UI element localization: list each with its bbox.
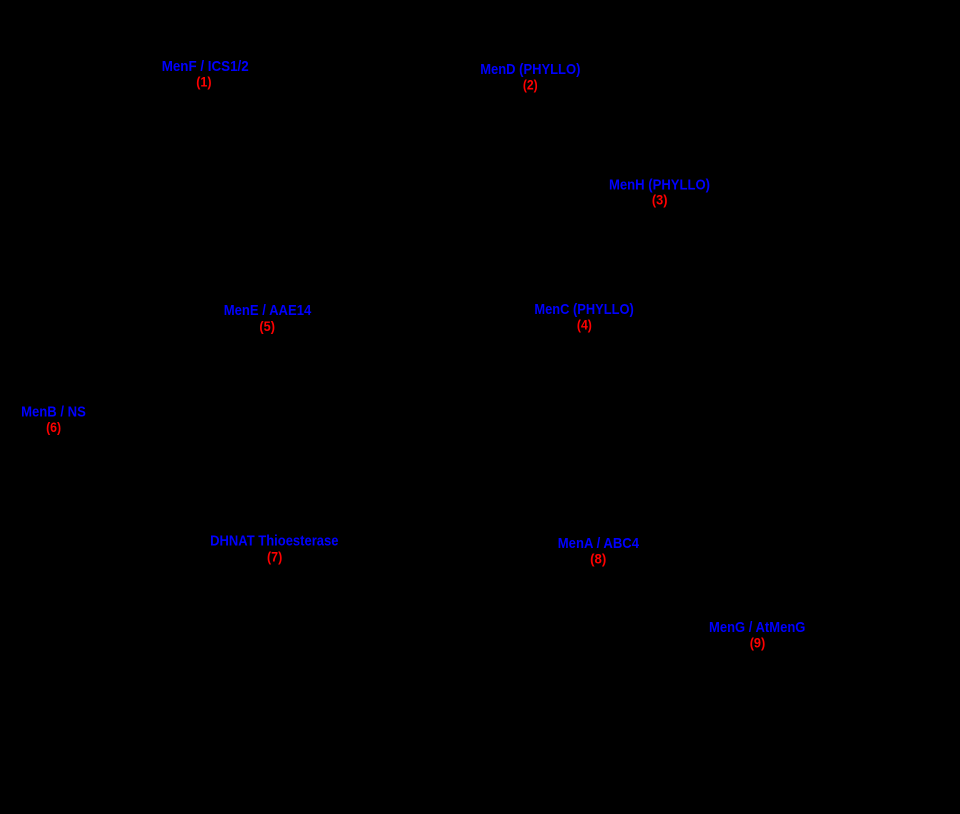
svg-text:(3): (3): [652, 192, 668, 208]
enzyme label MenE / AAE14 (step 5): [224, 302, 312, 334]
svg-text:(4): (4): [577, 317, 592, 333]
svg-text:MenF / ICS1/2: MenF / ICS1/2: [162, 58, 249, 75]
svg-text:MenD (PHYLLO): MenD (PHYLLO): [480, 61, 580, 78]
svg-text:(6): (6): [46, 419, 61, 435]
enzyme label MenF / ICS1/2 (step 1): [162, 58, 249, 90]
svg-text:(7): (7): [267, 548, 282, 564]
enzyme label MenB / NS (step 6): [21, 403, 86, 435]
svg-text:(1): (1): [196, 73, 211, 89]
svg-text:MenE / AAE14: MenE / AAE14: [224, 302, 312, 319]
svg-text:MenC (PHYLLO): MenC (PHYLLO): [534, 301, 633, 318]
svg-text:(9): (9): [750, 634, 766, 650]
svg-text:(5): (5): [259, 318, 275, 334]
enzyme label MenG / AtMenG (step 9): [709, 619, 805, 650]
enzyme label DHNAT Thioesterase (step 7): [210, 533, 338, 565]
svg-text:(8): (8): [590, 551, 606, 567]
enzyme label MenA / ABC4 (step 8): [558, 535, 640, 566]
svg-text:(2): (2): [523, 77, 538, 93]
enzyme label MenH (PHYLLO) (step 3): [609, 176, 710, 207]
svg-text:MenB / NS: MenB / NS: [21, 403, 86, 420]
enzyme label MenC (PHYLLO) (step 4): [534, 301, 633, 333]
svg-text:DHNAT Thioesterase: DHNAT Thioesterase: [210, 533, 338, 550]
enzyme label MenD (PHYLLO) (step 2): [480, 61, 580, 93]
